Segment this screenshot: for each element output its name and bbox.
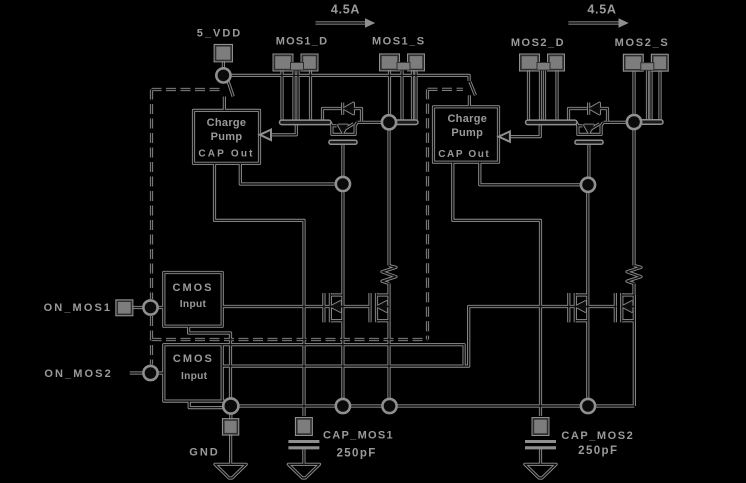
wire arrow shaft 4.5A left (316, 21, 367, 24)
svg-text:250pF: 250pF (336, 448, 376, 460)
wire 5_VDD rail (231, 75, 469, 81)
IC2 boundary dashed top (428, 88, 464, 91)
IC boundary dashed bottom (152, 338, 428, 341)
wire M2 source to GND bus (387, 321, 390, 399)
svg-text:CMOS: CMOS (173, 353, 214, 365)
wire R2 to M4 drain (632, 284, 635, 296)
ground symbol GND (215, 464, 246, 478)
wire MOS2_D pad legs (529, 70, 558, 122)
pad CAP_MOS2 (532, 418, 549, 436)
charge pump U2 box (434, 107, 499, 162)
pin circle ON_MOS1 (143, 300, 157, 314)
wire C1 to ground (302, 447, 305, 463)
resistor R2 (627, 266, 641, 284)
svg-text:Pump: Pump (211, 131, 243, 143)
resistor R1 (382, 266, 396, 284)
wire U1 gate drive to drain bus (271, 125, 296, 135)
junction node F (Q2 gate) (581, 178, 595, 192)
wire ON_MOS2 stub to pin circle (130, 371, 143, 374)
charge pump U1 box (194, 110, 260, 163)
wire pin circle to CMOS input U3 (158, 306, 164, 309)
nmos M2 (370, 293, 389, 322)
wire U1 CAP Out right pin to node A (240, 163, 335, 184)
wire U3 ground pin to node H (189, 326, 231, 398)
arrowhead 4.5A right (619, 18, 629, 28)
wire U2 CAP Out right pin to node F (480, 162, 581, 185)
arrowhead U2 gate drive (499, 131, 510, 141)
pad GND (223, 419, 239, 435)
wire R1 to M2 drain (387, 284, 390, 296)
wire SW1 to charge pump U1 (223, 97, 226, 111)
junction node H (GND) (223, 398, 238, 413)
svg-text:Input: Input (181, 371, 208, 382)
svg-text:ON_MOS2: ON_MOS2 (44, 368, 113, 380)
pin circle 5_VDD (216, 68, 230, 82)
svg-text:Pump: Pump (451, 127, 483, 139)
IC1 boundary dashed left upper (150, 90, 153, 300)
svg-text:5_VDD: 5_VDD (197, 28, 242, 40)
junction node G (GND bus) (581, 399, 595, 413)
arrowhead 4.5A left (365, 18, 375, 28)
pad MOS1_D (273, 54, 318, 71)
junction node E (MOS2 source) (627, 115, 641, 129)
wire node A to M1 drain (341, 192, 344, 295)
drain bus bar MOS2 (526, 120, 578, 125)
wire U2 gate drive to drain bus (510, 125, 540, 137)
svg-text:250pF: 250pF (578, 445, 618, 457)
svg-text:4.5A: 4.5A (587, 3, 616, 17)
svg-text:Charge: Charge (447, 113, 487, 125)
wire GND pad to ground (229, 434, 232, 464)
IC1 boundary dashed top (152, 88, 220, 91)
wire M1 source to GND bus (341, 321, 344, 399)
junction node C (MOS1 source) (382, 115, 396, 129)
power mosfet Q1 with body diode (323, 103, 362, 135)
IC2 boundary dashed left (426, 89, 429, 339)
wire M3 source to GND bus (586, 321, 589, 399)
wire node H to GND pad (229, 414, 232, 420)
wire Q1 source to node A (358, 121, 384, 124)
arrowhead U1 gate drive (260, 130, 271, 140)
nmos M3 (569, 293, 588, 322)
wire node F to M3 drain (586, 193, 589, 295)
wire U2 CAP Out left pin to CAP_MOS2 (453, 162, 541, 416)
wire Q2 gate lead (587, 144, 590, 179)
wire arrow shaft 4.5A right (568, 21, 619, 24)
CMOS input U4 box (164, 345, 222, 401)
pad ON_MOS1 (116, 300, 133, 316)
wire U4 bottom edge to node H (222, 400, 231, 403)
capacitor C2 plates (525, 442, 556, 448)
wire SW2 to charge pump U2 (468, 95, 471, 107)
source bus bar MOS2 (637, 120, 663, 125)
junction node B (GND bus) (336, 399, 350, 413)
svg-text:Input: Input (180, 299, 207, 310)
wire MOS2_S pad legs (634, 69, 660, 121)
wire M4 source to GND bus corner (633, 321, 636, 406)
GND bus (231, 404, 635, 407)
nmos M1 (324, 293, 343, 322)
ground symbol C1 (288, 464, 319, 478)
svg-text:MOS2_D: MOS2_D (511, 37, 565, 49)
wire node E to resistor R2 (632, 130, 635, 266)
wire U3 output to M1 M2 gates (222, 305, 370, 308)
junction node D (GND bus) (382, 399, 396, 413)
capacitor C1 plates (288, 442, 319, 448)
svg-text:MOS1_D: MOS1_D (276, 36, 328, 48)
svg-text:CAP_MOS1: CAP_MOS1 (323, 429, 394, 441)
source bus bar MOS1 (392, 120, 418, 125)
Q2 gate plate (575, 140, 603, 144)
svg-text:ON_MOS1: ON_MOS1 (44, 302, 113, 314)
drain bus bar MOS1 (280, 120, 332, 125)
pad MOS2_D (520, 54, 565, 71)
wire C2 to ground (539, 447, 542, 463)
svg-text:CMOS: CMOS (173, 282, 214, 294)
Q1 gate plate (329, 140, 357, 144)
wire Q1 gate lead (341, 145, 344, 179)
wire MOS1_S pad legs (390, 69, 417, 121)
wire ON_MOS1 pad to pin circle (131, 306, 143, 309)
wire node C to resistor R1 (387, 130, 390, 266)
svg-text:MOS1_S: MOS1_S (372, 36, 426, 48)
svg-text:Charge: Charge (207, 117, 247, 129)
power mosfet Q2 with body diode (569, 103, 608, 135)
svg-text:GND: GND (189, 446, 219, 458)
pad CAP_MOS1 (296, 418, 313, 436)
wire MOS1_D pad legs (282, 70, 311, 122)
switch blade SW1 (228, 80, 234, 96)
svg-text:CAP Out: CAP Out (438, 149, 490, 160)
ground symbol C2 (525, 464, 556, 478)
wire U1 CAP Out left pin to CAP_MOS1 (215, 163, 305, 416)
svg-text:CAP Out: CAP Out (198, 148, 254, 159)
nmos M4 (615, 293, 634, 322)
pad MOS2_S (623, 54, 668, 71)
svg-text:MOS2_S: MOS2_S (615, 37, 670, 49)
junction node A (Q1 gate) (336, 177, 350, 191)
CMOS input U3 box (164, 273, 222, 327)
wire U4 top edge feed (222, 345, 464, 366)
IC1 boundary dashed left lower (150, 316, 153, 365)
wire U4 output to M3 M4 gates (222, 307, 616, 367)
svg-text:CAP_MOS2: CAP_MOS2 (561, 430, 634, 442)
wire U4 ground pin to node H (189, 401, 223, 408)
svg-text:4.5A: 4.5A (331, 3, 360, 17)
wire Q2 source to node F (604, 121, 629, 124)
pad MOS1_S (380, 54, 425, 71)
wire 5_VDD pad to pin circle (222, 60, 225, 68)
wire pin circle to CMOS input U4 (158, 371, 164, 374)
pad 5_VDD (214, 45, 232, 62)
switch blade SW2 (470, 82, 476, 96)
pin circle ON_MOS2 (143, 366, 157, 380)
